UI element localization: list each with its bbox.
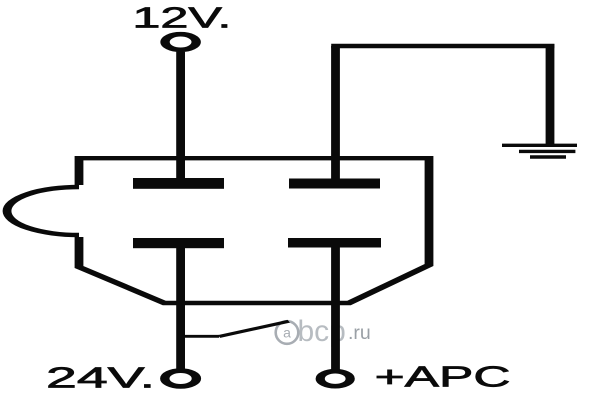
svg-text:.ru: .ru [348, 322, 371, 344]
pin 87 lower-left [133, 238, 224, 248]
wire ground horizontal top [331, 44, 554, 48]
svg-text:+APC: +APC [375, 360, 511, 393]
wire APC vertical [333, 247, 337, 370]
switch contact stub [184, 335, 219, 338]
wire ground vertical right [548, 44, 552, 146]
watermark abcp.ru logo [276, 315, 371, 348]
svg-text:a: a [283, 325, 291, 341]
wire 12V vertical [178, 52, 182, 178]
ground [502, 145, 577, 157]
relay key tab [7, 187, 79, 235]
wire 24V vertical [178, 248, 182, 370]
pin 30 lower-right [288, 238, 381, 248]
wire 86 vertical [333, 46, 337, 179]
pin 87a upper-left [133, 178, 224, 189]
terminal 24V [165, 371, 197, 387]
svg-text:12V.: 12V. [132, 2, 231, 34]
terminal APC [320, 371, 350, 386]
terminal 12V [165, 34, 196, 50]
pin 85 upper-right [289, 179, 380, 189]
relay body outline [79, 158, 429, 303]
switch lever [219, 321, 289, 336]
svg-text:24V.: 24V. [46, 361, 155, 394]
